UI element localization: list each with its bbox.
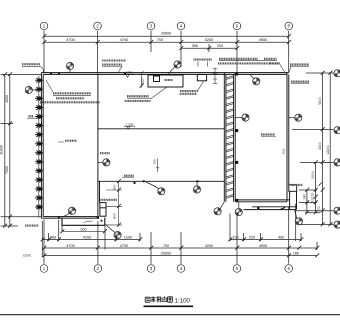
svg-text:170: 170 xyxy=(317,206,321,212)
svg-text:7600: 7600 xyxy=(5,166,9,174)
right small chains xyxy=(299,162,323,212)
bottom dim row A right xyxy=(230,239,301,241)
svg-text:4200: 4200 xyxy=(205,244,213,248)
interior wall axis2 xyxy=(98,74,100,218)
fan room box on top wall xyxy=(148,75,183,87)
right dim texts rotated xyxy=(113,79,330,219)
svg-text:5600: 5600 xyxy=(318,97,322,105)
drain below canopy xyxy=(106,225,121,239)
drain left wall xyxy=(25,86,41,93)
svg-text:4600: 4600 xyxy=(259,244,267,248)
svg-text:240: 240 xyxy=(302,194,306,200)
drain bottom-left interior xyxy=(63,207,76,216)
svg-text:±0.00: ±0.00 xyxy=(23,254,31,258)
drain interior axis2 xyxy=(98,159,110,166)
axis bubble 1 top xyxy=(40,22,292,272)
right wall double xyxy=(287,73,289,202)
svg-text:360: 360 xyxy=(50,236,56,240)
bottom dim row C xyxy=(44,255,317,257)
svg-text:700: 700 xyxy=(282,149,286,155)
svg-text:4600: 4600 xyxy=(259,38,267,42)
svg-text:2000: 2000 xyxy=(311,171,315,179)
svg-text:7.200: 7.200 xyxy=(126,122,134,126)
svg-text:20000: 20000 xyxy=(161,32,172,36)
axis line 4 xyxy=(180,31,182,264)
svg-text:1500: 1500 xyxy=(124,236,132,240)
svg-text:150: 150 xyxy=(232,236,238,240)
right margin drain 4 xyxy=(334,207,340,214)
svg-text:4700: 4700 xyxy=(66,244,74,248)
top dim line overall xyxy=(44,35,289,37)
title underline xyxy=(144,305,194,307)
svg-text:300: 300 xyxy=(113,185,117,191)
svg-text:4000: 4000 xyxy=(5,95,9,103)
drain above top wall left xyxy=(66,62,73,72)
annotation underlines and leaders xyxy=(22,61,309,178)
small dim stubs above wall xyxy=(198,62,207,67)
drain below main edge right xyxy=(193,181,200,193)
svg-text:1:100: 1:100 xyxy=(175,298,191,305)
corner closet box xyxy=(100,203,106,217)
elevation marker 7.200 upper xyxy=(123,75,134,78)
svg-text:3300: 3300 xyxy=(318,142,322,150)
axis line 5 xyxy=(236,31,238,264)
svg-text:4200: 4200 xyxy=(83,236,91,240)
drain below ladder xyxy=(214,202,224,215)
right dim line outer xyxy=(329,73,331,225)
right margin drain 3 xyxy=(334,159,340,166)
right margin drain 2 xyxy=(334,127,340,134)
drain right section mid xyxy=(235,114,249,121)
svg-text:11600: 11600 xyxy=(0,145,4,155)
svg-text:250: 250 xyxy=(249,236,255,240)
axis line 6 xyxy=(288,31,290,264)
dimension tick slashes xyxy=(3,34,332,257)
level mark near roof edge xyxy=(156,159,159,173)
ladder rungs xyxy=(226,76,234,199)
rain drains (circle-cross symbols) xyxy=(25,61,340,239)
svg-text:400: 400 xyxy=(278,236,284,240)
top dim line small bays xyxy=(181,47,237,49)
axis line 1 xyxy=(43,31,45,264)
canopy width dim xyxy=(62,230,105,232)
stars (roof ornament column) xyxy=(38,76,40,218)
step corner right xyxy=(290,191,297,209)
bottom frame border xyxy=(0,314,340,316)
ladder anchor squares xyxy=(235,73,238,202)
vent pole with rungs xyxy=(213,68,217,84)
building walls xyxy=(41,73,296,226)
bottom dim texts xyxy=(50,236,299,256)
drain below right section xyxy=(235,202,242,216)
svg-text:150: 150 xyxy=(141,79,145,85)
tiny chinese annotation bands (simulated) xyxy=(22,59,309,226)
wall dot squares xyxy=(50,73,259,219)
left dim texts rotated xyxy=(0,95,9,174)
drain below right step xyxy=(295,210,303,225)
drain right section top xyxy=(250,74,260,85)
rooftop hatch box xyxy=(197,75,206,81)
interior roof line xyxy=(98,128,224,130)
svg-text:4700: 4700 xyxy=(66,38,74,42)
drain below main edge left xyxy=(146,182,165,195)
ladder rails xyxy=(224,73,235,202)
svg-text:130: 130 xyxy=(310,192,314,198)
svg-text:4700: 4700 xyxy=(120,244,128,248)
axis line 2 xyxy=(97,31,99,264)
bottom extension lines xyxy=(42,204,317,257)
flue box on right wall xyxy=(289,185,297,192)
left dim line inner xyxy=(9,74,11,226)
svg-text:500: 500 xyxy=(81,227,87,231)
svg-text:180: 180 xyxy=(293,252,299,256)
svg-text:4700: 4700 xyxy=(120,38,128,42)
bottom dim row B xyxy=(44,247,317,249)
small dims inside xyxy=(62,62,217,232)
left extension lines xyxy=(1,74,42,226)
top dim line bays xyxy=(44,41,289,43)
title: roof plan pseudo hanzi xyxy=(145,296,172,302)
right dim line inner xyxy=(321,73,323,225)
top dim texts xyxy=(66,32,267,49)
bottom dim row A left xyxy=(42,239,140,241)
svg-text:7.200: 7.200 xyxy=(125,71,133,75)
svg-text:750: 750 xyxy=(163,244,169,248)
elevation marker 7.200 lower xyxy=(124,126,135,129)
svg-text:150: 150 xyxy=(152,159,156,164)
chimney offset dim xyxy=(140,71,144,87)
svg-text:20000: 20000 xyxy=(161,252,172,256)
svg-text:750: 750 xyxy=(157,38,163,42)
left dim line outer xyxy=(4,74,6,226)
right section bottom wall double xyxy=(236,200,290,202)
svg-text:100: 100 xyxy=(310,198,314,204)
tick stub 209 xyxy=(208,44,210,52)
svg-text:250: 250 xyxy=(217,44,223,48)
main roof bottom edge xyxy=(98,180,224,182)
right margin drain 5 xyxy=(334,221,340,228)
top wall double xyxy=(41,73,288,75)
drain above fan room xyxy=(168,61,181,75)
drain outside right wall xyxy=(289,114,302,121)
left wall double xyxy=(41,73,43,219)
right margin drain 1 xyxy=(334,70,340,77)
svg-text:4200: 4200 xyxy=(205,38,213,42)
axis line 3 xyxy=(150,31,152,264)
svg-text:300: 300 xyxy=(192,44,198,48)
left-bottom vertical dim xyxy=(106,181,122,226)
right extension leaders to drains xyxy=(292,73,333,225)
svg-text:600: 600 xyxy=(113,213,117,219)
svg-text:12200: 12200 xyxy=(326,145,330,155)
eave line below right section xyxy=(244,207,297,210)
canopy slab xyxy=(62,218,105,226)
bottom-left wall double xyxy=(41,217,99,219)
